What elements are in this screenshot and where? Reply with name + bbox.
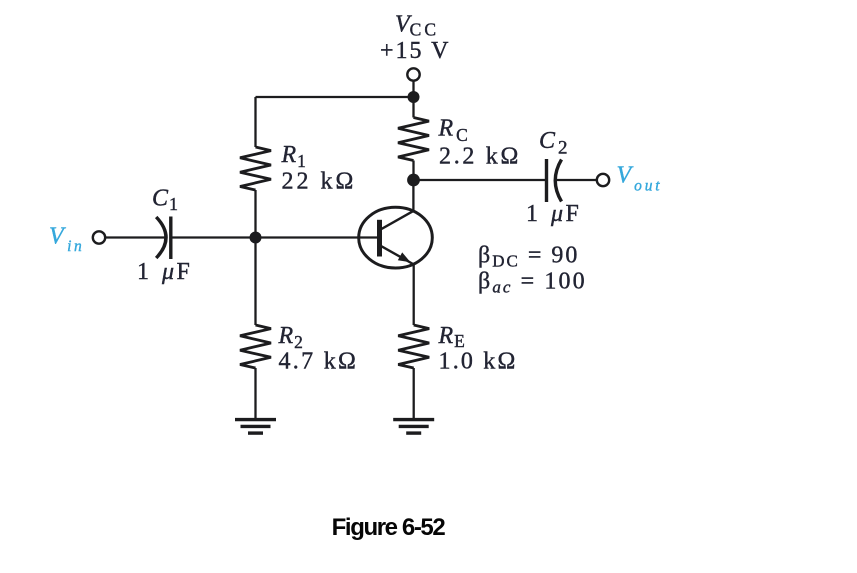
label +15 V [380,38,450,64]
top rail wire [256,96,414,98]
wire base node to transistor [256,236,378,238]
wire Vin to C1 [105,236,166,238]
svg-text:RC: RC [438,116,468,146]
label C2 value [526,201,579,227]
label Vout [617,163,663,195]
svg-text:βDC = 90: βDC = 90 [478,243,579,271]
label R1 value [282,169,357,195]
svg-text:Vin: Vin [49,224,84,256]
svg-text:RE: RE [438,323,465,351]
svg-text:+15 V: +15 V [380,38,450,64]
label Vin [49,224,84,256]
collector node dot [407,174,420,187]
label R1 [281,142,306,171]
svg-text:Figure 6-52: Figure 6-52 [332,514,446,541]
caption Figure 6-52 [332,514,446,541]
wire collector node to C2 [414,179,547,181]
svg-text:1μF: 1μF [526,201,579,227]
label R2 [278,323,303,352]
svg-text:C2: C2 [539,128,568,159]
svg-text:1μF: 1μF [137,259,190,285]
svg-text:22 kΩ: 22 kΩ [282,169,357,195]
resistor R2 [240,238,271,420]
transistor Q1 [359,207,433,268]
svg-text:βac = 100: βac = 100 [478,269,587,297]
ground (left) [235,420,276,434]
base node dot [250,232,262,244]
label RE [438,323,465,351]
label R2 value [279,349,359,375]
wire C2 to output terminal [556,179,597,181]
resistor R1 [240,97,271,238]
label beta DC [478,243,579,271]
svg-text:VCC: VCC [395,12,439,40]
output terminal [597,174,609,186]
VCC terminal [407,68,419,80]
svg-text:R1: R1 [281,142,306,171]
label RE value [439,349,518,375]
svg-text:C1: C1 [152,186,178,215]
ground (right) [393,420,434,434]
svg-text:4.7 kΩ: 4.7 kΩ [279,349,359,375]
label C1 [152,186,178,215]
wire emitter vertical [413,264,415,325]
svg-text:2.2 kΩ: 2.2 kΩ [439,144,521,170]
wire C1 to base node [171,236,256,238]
capacitor C2 [547,159,562,202]
svg-text:Vout: Vout [617,163,663,195]
label RC [438,116,468,146]
resistor RC [398,97,429,180]
label RC value [439,144,521,170]
label VCC [395,12,439,40]
label C2 [539,128,568,159]
capacitor C1 [156,217,171,260]
wire collector vertical [412,180,414,211]
label beta ac [478,269,587,297]
svg-text:1.0 kΩ: 1.0 kΩ [439,349,518,375]
wire VCC terminal to rail [412,81,414,97]
input terminal Vin [93,231,105,243]
junction node dot (VCC rail) [408,91,420,103]
label C1 value [137,259,190,285]
resistor RE [398,325,429,419]
